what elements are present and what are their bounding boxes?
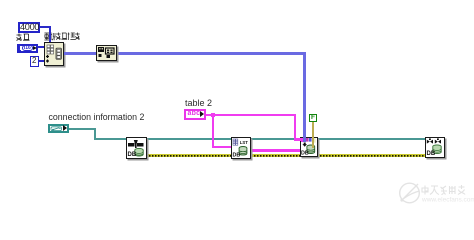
svg-text:DB: DB: [427, 151, 436, 156]
svg-text:DB: DB: [128, 152, 137, 157]
svg-text:DB: DB: [233, 152, 241, 157]
svg-text:DB: DB: [301, 150, 309, 155]
svg-text:www.elecfans.com: www.elecfans.com: [421, 197, 474, 204]
svg-text:LST: LST: [240, 139, 248, 144]
